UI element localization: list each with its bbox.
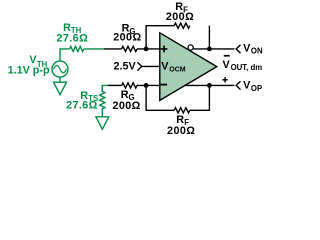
svg-text:1.1V p-p: 1.1V p-p bbox=[8, 65, 50, 77]
resistor RG bottom bbox=[122, 83, 137, 88]
resistor RF top bbox=[174, 23, 190, 28]
op-amp plus input label bbox=[161, 46, 168, 53]
label minus output bbox=[224, 55, 230, 57]
op-amp minus input label bbox=[161, 84, 168, 86]
ground under source bbox=[54, 82, 67, 95]
node D junction dot bbox=[207, 83, 212, 88]
resistor RTS bbox=[100, 85, 105, 116]
node B junction dot bbox=[207, 47, 212, 52]
node A junction dot bbox=[144, 47, 149, 52]
wire source bottom to ground bbox=[59, 77, 61, 82]
resistor RF bottom bbox=[174, 108, 190, 113]
resistor RTH bbox=[70, 46, 84, 51]
wire RTH to RG (black part) bbox=[104, 48, 122, 50]
svg-text:200Ω: 200Ω bbox=[113, 31, 141, 43]
terminal VON chevron bbox=[236, 45, 240, 53]
voltage source VTH bbox=[52, 61, 68, 77]
wire RTH to RG (green part) bbox=[84, 48, 104, 50]
wire bubble to VON terminal bbox=[193, 48, 234, 50]
svg-text:200Ω: 200Ω bbox=[167, 125, 195, 137]
node C junction dot bbox=[144, 83, 149, 88]
wire RG bottom to node C bbox=[137, 84, 160, 86]
terminal VOP chevron bbox=[236, 81, 240, 89]
svg-text:VOP: VOP bbox=[243, 80, 262, 93]
label plus output bbox=[223, 77, 228, 82]
wire RTS node to RG bottom (black part) bbox=[108, 84, 122, 86]
feedback wire up to node D bbox=[190, 85, 210, 110]
svg-text:VOUT, dm: VOUT, dm bbox=[223, 59, 263, 72]
op-amp U1 body bbox=[160, 33, 217, 101]
wire source top to RTH bbox=[60, 49, 70, 61]
svg-text:2.5V: 2.5V bbox=[114, 61, 137, 73]
feedback wire down from node C bbox=[146, 85, 174, 110]
wire op-amp to VOP terminal bbox=[185, 84, 235, 86]
feedback wire down to node B bbox=[208, 26, 210, 49]
wire RG to node A bbox=[137, 48, 160, 50]
svg-text:27.6Ω: 27.6Ω bbox=[66, 100, 98, 112]
feedback wire up from node A bbox=[146, 26, 174, 49]
wire RTS node to RG bottom (green part) bbox=[102, 85, 108, 91]
svg-text:27.6Ω: 27.6Ω bbox=[56, 33, 88, 45]
inverting output bubble bbox=[188, 45, 193, 50]
svg-text:VON: VON bbox=[243, 42, 263, 55]
ground under RTS bbox=[96, 117, 109, 130]
svg-text:200Ω: 200Ω bbox=[166, 11, 194, 23]
wire 2.5V to VOCM pin bbox=[142, 65, 160, 67]
svg-text:200Ω: 200Ω bbox=[112, 100, 140, 112]
resistor RG top bbox=[122, 46, 137, 51]
terminal 2.5V chevron bbox=[137, 62, 141, 70]
